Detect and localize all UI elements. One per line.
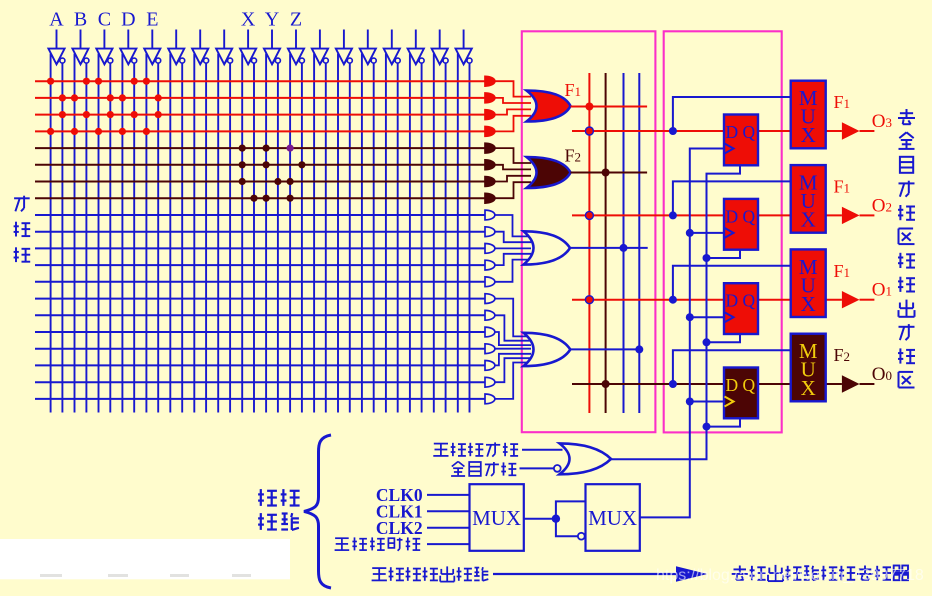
wire product term row4 [35,130,485,132]
flip-flop U4 [724,368,758,419]
wire AND10 to OR3 [495,232,531,243]
AND gate row7 [485,177,495,187]
wire AND1 to OR F1 [495,81,531,96]
mux U7 [791,249,826,317]
label to-global-routing (Chinese vertical) [898,109,915,388]
wire complement output col3 [109,63,111,412]
wire OR3 output [570,247,648,249]
wire U9 output [524,518,556,520]
svg-text:CLK2: CLK2 [376,518,423,538]
wire product term row16 [35,331,485,333]
wire reset rail [611,165,740,459]
svg-text:Q: Q [742,291,755,311]
AND gate row14 [485,294,495,304]
wire true output col17 [433,54,435,413]
AND gate row2 [485,93,495,103]
svg-text:O3: O3 [872,111,892,132]
AND gate row15 [485,310,495,320]
node clock junction dff3 [686,313,694,321]
wire OR4 output [570,348,639,350]
wire complement output col14 [373,63,375,412]
wire product term row6 [35,164,485,166]
wire true output col6 [169,54,171,413]
input buffer pair col3 [96,30,113,65]
svg-text:Q: Q [742,375,755,395]
wire true output col2 [74,54,76,413]
node programmed dot row3 [83,111,90,118]
mux U8 [791,334,826,402]
wire reset stub dff2 [707,250,741,258]
bubble global-reset inverted input [554,465,561,472]
node reset junction dff2 [703,254,711,262]
input buffer pair col13 [336,30,353,65]
AND gate row8 [485,193,495,203]
wire AND13 to OR3 [495,260,531,282]
AND gate row18 [485,361,495,371]
node O1 junction [585,296,593,304]
decor dash 3 [232,574,251,577]
brace control group [304,435,331,588]
white patch [0,539,290,579]
wire product term row7 [35,181,485,183]
wire AND11 to OR3 [495,247,531,249]
wire complement output col10 [277,63,279,412]
wire true output col5 [145,54,147,413]
wire true output col16 [409,54,411,413]
node reset junction dff3 [703,338,711,346]
wire product term row3 [35,114,485,116]
label to-output-enable-mux (Chinese) [732,565,909,581]
wire complement output col8 [229,63,231,412]
input buffer pair col15 [384,30,401,65]
wire O3 bypass [673,97,791,131]
node O1 bypass junction [669,296,677,304]
wire clock input 2 [427,527,470,529]
wire O2 line [572,214,842,216]
node O3 junction [585,127,593,135]
input buffer pair col5 [144,30,161,65]
wire complement output col16 [421,63,423,412]
wire product term row18 [35,364,485,366]
AND gate row12 [485,260,495,270]
wire product term row17 [35,348,485,350]
wire O3 line [572,130,842,132]
node programmed dot row2 [71,94,78,101]
wire product term row15 [35,314,485,316]
wire U10 inverted input [556,519,578,537]
svg-text:C: C [98,9,111,31]
input buffer pair col17 [432,30,449,65]
node programmed dot row5 [239,145,246,152]
svg-text:D: D [725,375,738,395]
node programmed dot row1 [83,78,90,85]
input buffer pair col9 [240,30,257,65]
wire complement output col15 [397,63,399,412]
wire complement output col7 [205,63,207,412]
wire O2 tail [860,214,875,216]
wire complement output col6 [181,63,183,412]
wire product term row11 [35,247,485,249]
wire clock stub dff3 [690,316,725,318]
frame macrocell box [664,31,782,432]
input buffer pair col10 [264,30,281,65]
output arrow O1 [842,291,860,308]
wire AND19 to OR4 [495,358,531,382]
wire product term row19 [35,381,485,383]
bubble U10 inverted input [578,533,585,540]
svg-text:Q: Q [742,206,755,226]
wire O2 bypass [673,181,791,215]
AND gate row20 [485,394,495,404]
wire clock stub dff4 [690,401,725,403]
wire clock input 0 [427,494,470,496]
output arrow O3 [842,122,860,139]
wire F2 vertical [605,73,607,413]
decor dash 2 [170,574,189,577]
wire clock input 1 [427,510,470,512]
wire complement output col5 [157,63,159,412]
node programmed dot row7 [239,178,246,185]
wire AND6 to OR F2 [495,165,531,170]
svg-text:E: E [146,9,158,31]
wire F2 output [571,172,648,174]
AND gate row5 [485,143,495,153]
input buffer pair col11 [288,30,305,65]
node O2 bypass junction [669,211,677,219]
node reset junction dff4 [703,423,711,431]
wire product term row10 [35,231,485,233]
input buffer pair col2 [72,30,89,65]
wire complement output col18 [469,63,471,412]
wire product term row12 [35,264,485,266]
svg-text:D: D [725,291,738,311]
AND gate row3 [485,110,495,120]
node F1 junction [585,103,593,111]
wire complement output col13 [349,63,351,412]
svg-text:X: X [241,9,256,31]
node programmed dot row4 [119,128,126,135]
wire AND16 to OR4 [495,332,531,345]
AND gate row17 [485,344,495,354]
node programmed dot row5 [263,145,270,152]
input buffer pair col12 [312,30,329,65]
node programmed dot row1 [143,78,150,85]
wire product-term-reset [522,449,563,451]
label product-term-reset (Chinese) [433,442,518,456]
node programmed dot row5 [287,145,294,152]
wire complement output col1 [61,63,63,412]
AND gate row6 [485,160,495,170]
decor dash 1 [108,574,128,577]
node programmed dot row6 [263,161,270,168]
wire complement output col11 [301,63,303,412]
AND gate row19 [485,377,495,387]
svg-text:D: D [121,9,135,31]
wire product term row9 [35,214,485,216]
AND gate row10 [485,227,495,237]
AND gate row4 [485,127,495,137]
wire O3 tail [860,130,875,132]
node programmed dot row3 [107,111,114,118]
wire true output col7 [193,54,195,413]
wire U10 direct input [556,501,586,518]
input buffer pair col1 [48,30,65,65]
input buffer pair col16 [408,30,425,65]
wire true output col4 [121,54,123,413]
output arrow O2 [842,207,860,224]
input buffer pair col14 [360,30,377,65]
wire O0 tail [860,383,875,385]
input buffer pair col6 [168,30,185,65]
node O0 junction [602,380,610,388]
wire product term row5 [35,147,485,149]
wire F1 output [571,106,648,108]
flip-flop U3 [724,283,758,334]
wire clock stub dff2 [690,232,725,234]
wire clock input 3 [427,543,470,545]
svg-text:X: X [801,208,816,232]
node programmed dot row1 [131,78,138,85]
wire product term row14 [35,298,485,300]
node O0 bypass junction [669,380,677,388]
svg-text:O0: O0 [872,364,892,385]
frame product-term box [522,31,656,432]
node programmed dot row2 [119,94,126,101]
AND gate row9 [485,210,495,220]
svg-text:htps://blog.csdn.net/weixin_43: htps://blog.csdn.net/weixin_43997718 [656,567,924,584]
mux polarity-select U10 [586,484,640,551]
label control-function (Chinese) [258,489,300,530]
svg-text:X: X [801,376,816,400]
wire true output col13 [337,54,339,413]
node programmed dot row2 [155,94,162,101]
node programmed dot row3 [59,111,66,118]
wire AND17 to OR4 [495,348,531,350]
wire AND18 to OR4 [495,354,531,366]
wire AND8 to OR F2 [495,182,531,198]
node O3 bypass junction [669,127,677,135]
node programmed dot row6 [239,161,246,168]
input buffer pair col8 [216,30,233,65]
svg-text:Y: Y [265,9,279,31]
wire complement output col4 [133,63,135,412]
wire AND9 to OR3 [495,215,531,236]
wire AND14 to OR4 [495,299,531,337]
wire complement output col12 [325,63,327,412]
wire complement output col9 [253,63,255,412]
wire reset stub dff3 [707,334,741,342]
wire true output col18 [457,54,459,413]
node F2 junction [602,169,610,177]
label product-term-clock (Chinese) [335,537,421,550]
input buffer pair col7 [192,30,209,65]
wire O1 tail [860,299,875,301]
wire true output col3 [98,54,100,413]
node programmed dot row2 [107,94,114,101]
or-gate F1 [527,91,571,122]
AND gate row16 [485,327,495,337]
svg-text:O2: O2 [872,195,892,216]
mux U5 [791,81,826,149]
svg-text:Z: Z [290,9,302,31]
wire product term row20 [35,398,485,400]
svg-text:D: D [725,122,738,142]
wire complement output col17 [445,63,447,412]
wire AND7 to OR F2 [495,176,531,182]
wire F1 vertical [588,73,590,413]
flip-flop U1 [724,115,758,166]
svg-text:O1: O1 [872,280,892,301]
wire O0 bypass [673,350,791,384]
node programmed dot row1 [47,78,54,85]
node programmed dot row3 [131,111,138,118]
or-gate OR4 [524,333,571,366]
mux clock-select U9 [470,484,524,551]
wire O0 line [572,383,842,385]
wire OR4 vertical [638,73,640,413]
node clock junction dff4 [686,398,694,406]
wire O1 bypass [673,266,791,300]
node U9 output junction [552,515,560,523]
wire complement output col2 [85,63,87,412]
svg-text:X: X [801,123,816,147]
svg-text:B: B [74,9,87,31]
label product-term-output-enable (Chinese) [372,566,489,581]
wire O1 line [572,299,842,301]
node clock junction dff2 [686,229,694,237]
wire AND12 to OR3 [495,254,531,265]
wire output-enable [493,573,676,575]
node programmed dot row8 [263,195,270,202]
wire reset stub dff4 [707,418,741,426]
wire true output col9 [241,54,243,413]
decor dash 0 [40,574,62,577]
svg-text:A: A [49,9,64,31]
node programmed dot row8 [287,195,294,202]
wire true output col12 [313,54,315,413]
AND gate row1 [485,76,495,86]
node programmed dot row4 [143,128,150,135]
node programmed dot row8 [250,195,257,202]
node programmed dot row6 [298,161,305,168]
wire AND15 to OR4 [495,315,531,340]
wire product term row8 [35,197,485,199]
wire AND4 to OR F1 [495,116,531,132]
label global-reset (Chinese) [451,462,516,477]
wire product term row13 [35,281,485,283]
wire AND20 to OR4 [495,363,531,399]
AND gate row13 [485,277,495,287]
wire clock rail [640,149,725,518]
wire true output col1 [50,54,52,413]
wire true output col8 [217,54,219,413]
node programmed dot row7 [287,178,294,185]
wire product term row1 [35,80,485,82]
or-gate reset [560,443,612,474]
svg-text:MUX: MUX [588,506,637,530]
node programmed dot row2 [59,94,66,101]
node programmed dot row4 [47,128,54,135]
node programmed dot row4 [95,128,102,135]
or-gate F2 [527,157,571,188]
node programmed dot row7 [274,178,281,185]
wire true output col11 [289,54,291,413]
wire OR3 vertical [623,73,625,413]
wire AND3 to OR F1 [495,109,531,114]
svg-text:X: X [801,292,816,316]
node programmed dot row1 [95,78,102,85]
flip-flop U2 [724,199,758,250]
input buffer pair col4 [120,30,137,65]
input buffer pair col18 [456,30,473,65]
svg-text:MUX: MUX [472,506,521,530]
node OR3 junction [620,244,628,252]
output arrow O0 [842,375,860,392]
mux U6 [791,165,826,233]
wire product term row2 [35,97,485,99]
node programmed dot row4 [71,128,78,135]
wire true output col10 [265,54,267,413]
node O2 junction [585,211,593,219]
svg-text:D: D [725,206,738,226]
node programmed dot row3 [155,111,162,118]
wire global-reset [520,467,554,469]
node OR4 junction [635,345,643,353]
wire true output col15 [385,54,387,413]
AND gate row11 [485,244,495,254]
label AND-array (Chinese vertical) [14,196,31,262]
or-gate OR3 [524,231,571,264]
svg-text:Q: Q [742,122,755,142]
arrow output-enable [676,566,707,581]
wire AND5 to OR F2 [495,148,531,163]
wire true output col14 [361,54,363,413]
wire AND2 to OR F1 [495,98,531,103]
